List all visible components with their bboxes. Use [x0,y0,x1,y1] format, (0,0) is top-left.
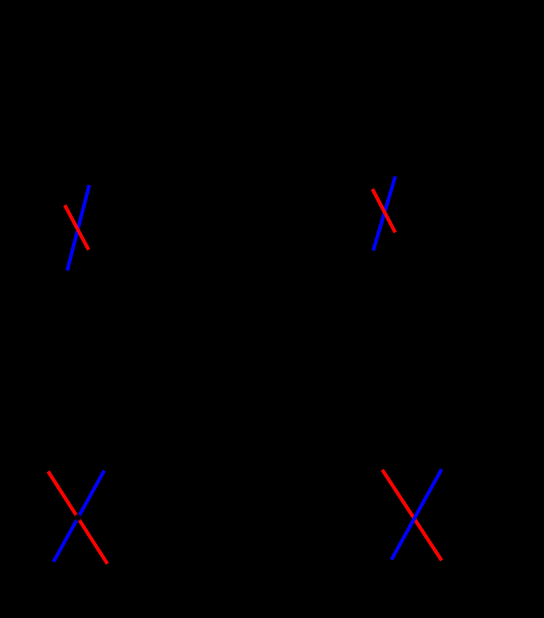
crossing 2 (top-right) red edge (over) [372,189,395,232]
crossing 2 (top-right) blue edge [373,176,395,250]
crossing 3 dark gap at intersection [74,513,82,521]
crossing 3 (bottom-left) red edge [48,471,107,563]
crossing 1 (top-left) red edge (over) [65,205,89,250]
crossing 1 (top-left) blue edge [67,185,89,271]
crossing 4 (bottom-right) blue edge (over) [392,469,442,559]
crossing 3 (bottom-left) blue edge [54,471,105,562]
crossing 4 (bottom-right) red edge [382,470,441,561]
